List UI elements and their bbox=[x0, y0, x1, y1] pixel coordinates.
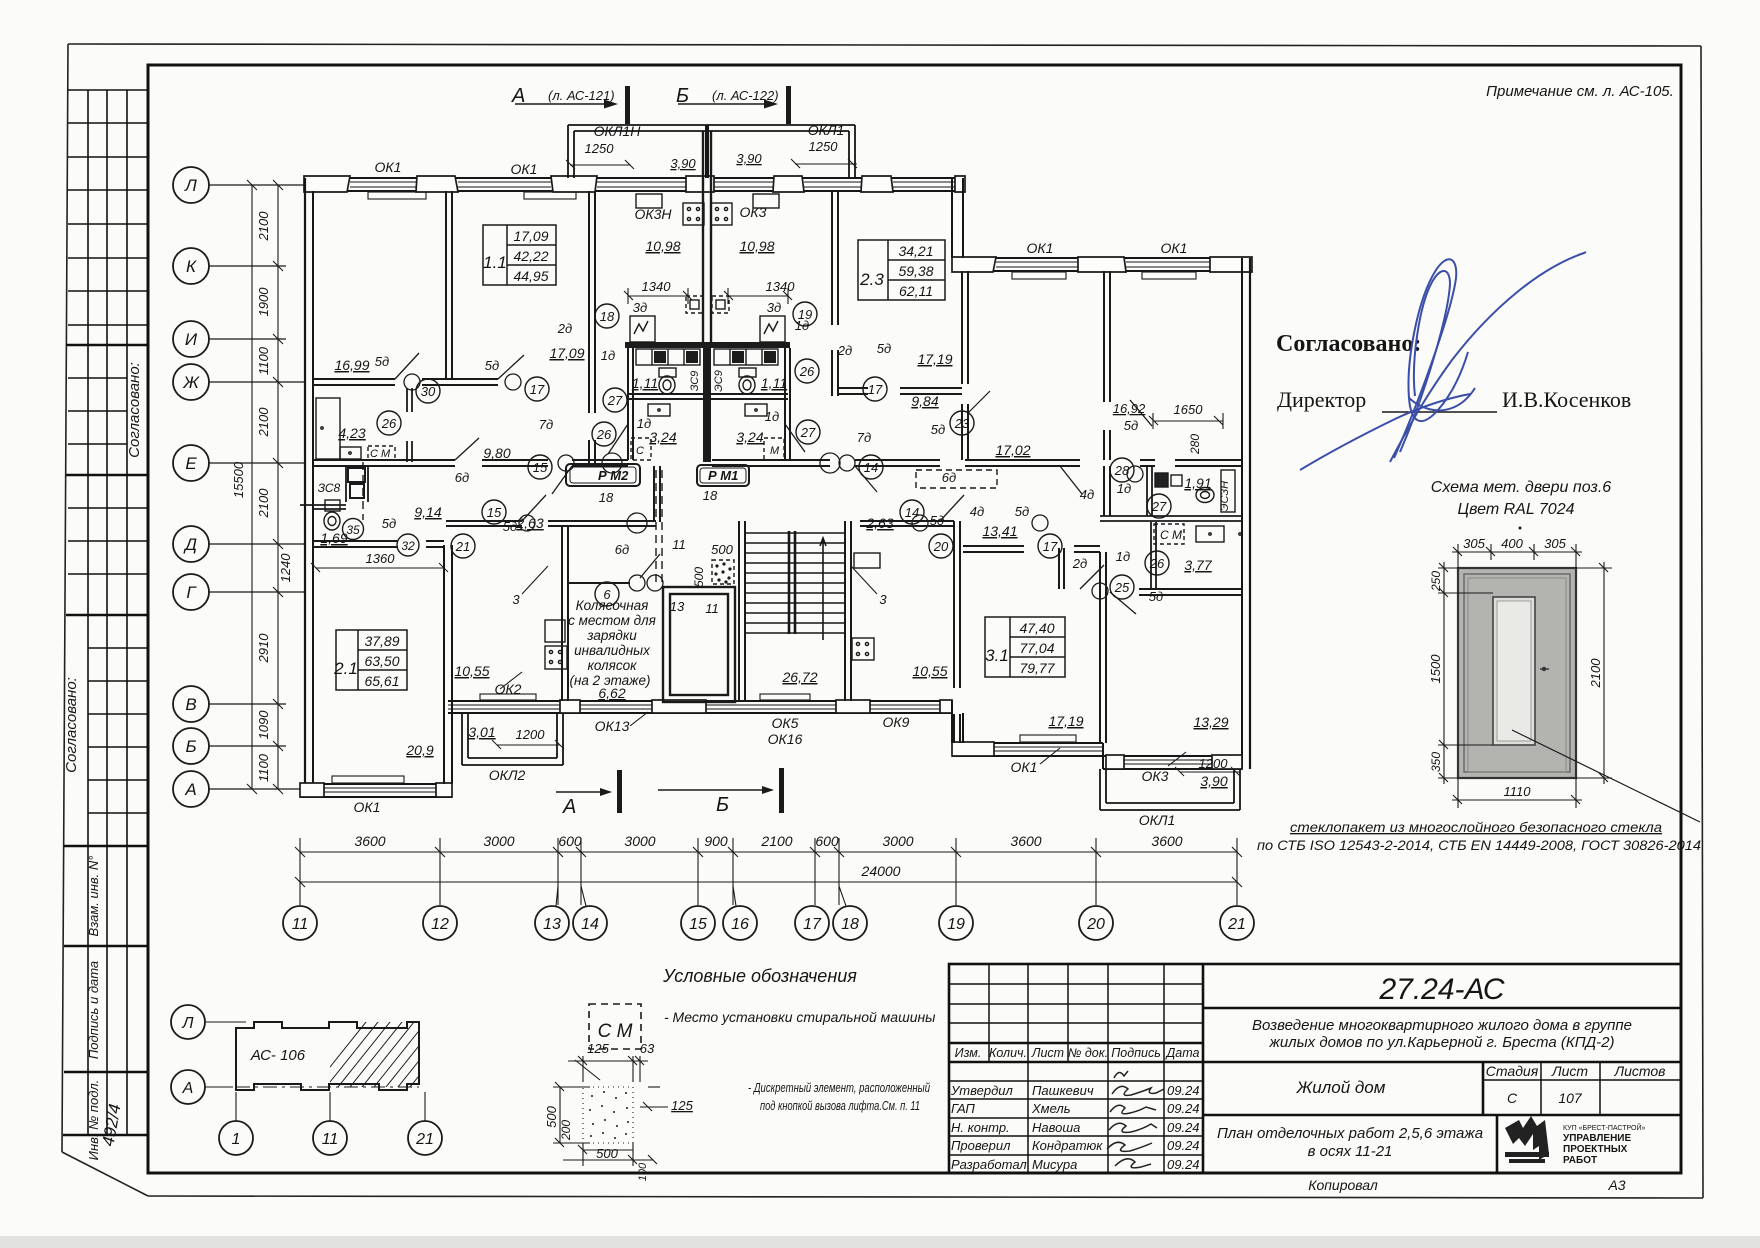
svg-text:Условные обозначения: Условные обозначения bbox=[662, 966, 857, 986]
walls below core: small partitions bbox=[628, 404, 785, 424]
svg-text:7д: 7д bbox=[539, 417, 553, 432]
svg-text:27: 27 bbox=[800, 425, 816, 440]
axis К bbox=[173, 248, 286, 284]
svg-text:А: А bbox=[184, 780, 196, 799]
svg-text:44,95: 44,95 bbox=[513, 268, 548, 284]
flat 2.3 bbox=[858, 240, 945, 300]
svg-text:инвалидных: инвалидных bbox=[574, 643, 651, 658]
СМ dashed boxes center bbox=[368, 438, 1184, 544]
svg-text:24000: 24000 bbox=[861, 863, 901, 879]
mini building bbox=[236, 1022, 419, 1090]
door dims right bbox=[1576, 562, 1612, 784]
svg-text:305: 305 bbox=[1544, 536, 1566, 551]
door dims left bbox=[1438, 562, 1493, 784]
kitchen stoves 4-burner top bbox=[683, 203, 732, 225]
svg-text:305: 305 bbox=[1463, 536, 1485, 551]
svg-text:ЗС9: ЗС9 bbox=[689, 371, 701, 392]
svg-text:6: 6 bbox=[603, 587, 611, 602]
grid axis 21 bbox=[1220, 906, 1254, 940]
svg-text:ОК3Н: ОК3Н bbox=[634, 206, 672, 222]
top band window mid lines bbox=[350, 182, 955, 187]
svg-text:Е: Е bbox=[185, 454, 197, 473]
svg-text:30: 30 bbox=[421, 384, 436, 399]
svg-text:1110: 1110 bbox=[1504, 784, 1532, 799]
svg-text:Жилой дом: Жилой дом bbox=[1296, 1078, 1386, 1097]
svg-text:ОК1: ОК1 bbox=[1161, 240, 1188, 256]
door designation labels bbox=[375, 300, 1163, 616]
axis В bbox=[173, 686, 286, 722]
left flat toilet bbox=[325, 500, 340, 511]
svg-text:11: 11 bbox=[322, 1131, 339, 1148]
svg-text:26,72: 26,72 bbox=[781, 669, 817, 685]
svg-text:Кондратюк: Кондратюк bbox=[1032, 1138, 1103, 1153]
svg-text:10,55: 10,55 bbox=[912, 663, 947, 679]
svg-text:И: И bbox=[185, 330, 198, 349]
svg-text:19: 19 bbox=[947, 916, 965, 933]
svg-text:10,98: 10,98 bbox=[645, 238, 680, 254]
svg-text:1360: 1360 bbox=[366, 551, 396, 566]
svg-text:Хмель: Хмель bbox=[1031, 1101, 1071, 1116]
stair walls bbox=[739, 521, 851, 701]
room area labels underlined bbox=[320, 238, 1228, 789]
svg-text:10,55: 10,55 bbox=[454, 663, 489, 679]
grid axis 19 bbox=[939, 906, 973, 940]
interior walls bbox=[300, 131, 1242, 743]
svg-text:ОК1: ОК1 bbox=[511, 161, 538, 177]
left wall bbox=[304, 178, 306, 797]
svg-text:5д: 5д bbox=[1149, 589, 1163, 604]
electric panels W bbox=[630, 316, 655, 342]
axis Д bbox=[173, 526, 304, 562]
lift shaft bbox=[663, 587, 735, 702]
Г axis wall right bbox=[1139, 589, 1242, 595]
party wall center x707 bbox=[703, 131, 711, 342]
svg-text:№ док.: № док. bbox=[1068, 1046, 1108, 1060]
svg-text:ОК1: ОК1 bbox=[1011, 759, 1038, 775]
svg-text:Б: Б bbox=[716, 794, 729, 816]
grid circles bottom bbox=[283, 886, 1254, 940]
axis И bbox=[173, 321, 286, 357]
svg-text:09.24: 09.24 bbox=[1167, 1120, 1200, 1135]
svg-text:2,63: 2,63 bbox=[865, 515, 893, 531]
svg-text:4д: 4д bbox=[970, 504, 984, 519]
svg-text:3,90: 3,90 bbox=[670, 156, 696, 171]
svg-text:2910: 2910 bbox=[256, 633, 271, 664]
svg-text:Навоша: Навоша bbox=[1032, 1120, 1080, 1135]
door dims bottom bbox=[1452, 778, 1582, 808]
section marks bottom bbox=[556, 768, 784, 818]
svg-text:С М: С М bbox=[598, 1021, 633, 1042]
corridor south wall bbox=[446, 521, 1100, 546]
svg-text:- Место установки стиральной м: - Место установки стиральной машины bbox=[664, 1009, 936, 1025]
dashed section line below РМ2 bbox=[363, 462, 662, 583]
svg-text:62,11: 62,11 bbox=[899, 283, 933, 299]
svg-text:1д: 1д bbox=[601, 348, 615, 363]
svg-text:5д: 5д bbox=[931, 422, 945, 437]
svg-text:1,11: 1,11 bbox=[761, 375, 787, 391]
grid axis 14 bbox=[573, 886, 607, 940]
svg-text:3,01: 3,01 bbox=[468, 724, 495, 740]
svg-text:26: 26 bbox=[596, 427, 612, 442]
sinks below bbox=[648, 404, 670, 416]
svg-text:47,40: 47,40 bbox=[1019, 620, 1054, 636]
svg-text:План отделочных работ 2,5,6 эт: План отделочных работ 2,5,6 этажа bbox=[1217, 1125, 1483, 1142]
right apartment walls bbox=[1104, 271, 1110, 516]
svg-text:Схема мет. двери поз.6: Схема мет. двери поз.6 bbox=[1431, 479, 1612, 496]
misc dims in plan bbox=[311, 563, 1240, 776]
svg-text:3600: 3600 bbox=[1151, 833, 1182, 849]
svg-text:09.24: 09.24 bbox=[1167, 1157, 1200, 1172]
svg-text:3,24: 3,24 bbox=[736, 429, 763, 445]
svg-text:600: 600 bbox=[815, 833, 839, 849]
svg-text:13,41: 13,41 bbox=[982, 523, 1017, 539]
svg-text:2100: 2100 bbox=[256, 211, 271, 242]
svg-text:10,98: 10,98 bbox=[739, 238, 774, 254]
svg-text:4,23: 4,23 bbox=[338, 425, 365, 441]
glass leader + note bbox=[1512, 730, 1700, 822]
svg-text:6д: 6д bbox=[455, 470, 469, 485]
svg-text:Р М2: Р М2 bbox=[598, 468, 629, 483]
handwritten signatures in title block bbox=[1107, 1071, 1164, 1168]
svg-text:по СТБ ISO 12543-2-2014, СТБ E: по СТБ ISO 12543-2-2014, СТБ EN 14449-20… bbox=[1257, 838, 1701, 853]
svg-text:14: 14 bbox=[905, 505, 919, 520]
axis А bbox=[173, 771, 304, 807]
svg-text:3600: 3600 bbox=[354, 833, 385, 849]
svg-text:17,02: 17,02 bbox=[995, 442, 1030, 458]
grid axis 16 bbox=[723, 886, 757, 940]
svg-text:1д: 1д bbox=[1116, 549, 1130, 564]
svg-text:Взам. инв. N°: Взам. инв. N° bbox=[86, 856, 101, 937]
svg-text:ОК5: ОК5 bbox=[772, 715, 799, 731]
svg-text:17: 17 bbox=[530, 382, 545, 397]
svg-text:16,99: 16,99 bbox=[334, 357, 369, 373]
svg-text:16: 16 bbox=[731, 916, 749, 933]
svg-text:1090: 1090 bbox=[256, 710, 271, 740]
svg-text:- Дискретный элемент, располож: - Дискретный элемент, расположенный bbox=[748, 1081, 930, 1095]
svg-text:3д: 3д bbox=[633, 300, 647, 315]
door dims top bbox=[1452, 544, 1582, 568]
top loggia bbox=[568, 125, 855, 178]
wall x952 stair right zone bbox=[954, 521, 1064, 743]
svg-text:250: 250 bbox=[1429, 571, 1443, 592]
svg-text:15: 15 bbox=[487, 505, 502, 520]
discrete element legend bbox=[553, 1056, 668, 1166]
svg-text:Утвердил: Утвердил bbox=[950, 1083, 1014, 1098]
Д axis wall left bbox=[313, 541, 444, 547]
svg-text:4д: 4д bbox=[1080, 487, 1094, 502]
wall between rooms x446 upper bbox=[446, 191, 452, 379]
svg-text:1650: 1650 bbox=[1174, 402, 1204, 417]
svg-text:1д: 1д bbox=[637, 416, 651, 431]
svg-text:РАБОТ: РАБОТ bbox=[1563, 1155, 1597, 1166]
svg-text:280: 280 bbox=[1188, 434, 1202, 455]
axis circles left bbox=[173, 167, 304, 807]
svg-text:15: 15 bbox=[689, 916, 707, 933]
drawing frame bbox=[148, 65, 1681, 1173]
svg-text:ОКЛ1Н: ОКЛ1Н bbox=[594, 123, 642, 139]
svg-text:ОК3: ОК3 bbox=[1142, 768, 1169, 784]
svg-text:Согласовано:: Согласовано: bbox=[1276, 331, 1421, 357]
window labels bbox=[354, 122, 1188, 828]
wall 2.1 right bbox=[443, 545, 445, 784]
svg-text:59,38: 59,38 bbox=[898, 263, 933, 279]
svg-text:М: М bbox=[770, 445, 780, 457]
svg-text:13: 13 bbox=[543, 916, 561, 933]
flat 3.1 bbox=[985, 617, 1065, 677]
svg-text:ОКЛ1: ОКЛ1 bbox=[808, 122, 845, 138]
svg-text:ОК1: ОК1 bbox=[375, 159, 402, 175]
svg-text:12: 12 bbox=[431, 916, 449, 933]
wall x1130 lower right bbox=[1100, 552, 1106, 743]
grid axis 18 bbox=[833, 886, 867, 940]
svg-text:17: 17 bbox=[868, 382, 883, 397]
step wall bottom mid bbox=[951, 701, 953, 743]
svg-text:Примечание см. л. АС-105.: Примечание см. л. АС-105. bbox=[1486, 83, 1674, 100]
svg-text:125: 125 bbox=[671, 1098, 693, 1113]
grid axis 13 bbox=[535, 886, 569, 940]
svg-text:1340: 1340 bbox=[642, 279, 672, 294]
svg-text:18: 18 bbox=[599, 490, 614, 505]
svg-text:1д: 1д bbox=[765, 409, 779, 424]
grid axis 11 bbox=[283, 906, 317, 940]
svg-text:17,19: 17,19 bbox=[1048, 713, 1083, 729]
bottom dimension lines bbox=[295, 838, 1242, 905]
svg-text:КУП «БРЕСТ-ПАСТРОЙ»: КУП «БРЕСТ-ПАСТРОЙ» bbox=[1563, 1123, 1645, 1132]
svg-text:1250: 1250 bbox=[585, 141, 615, 156]
svg-text:2д: 2д bbox=[1072, 556, 1087, 571]
svg-text:6д: 6д bbox=[615, 542, 629, 557]
svg-text:3000: 3000 bbox=[483, 833, 514, 849]
svg-text:19: 19 bbox=[798, 307, 812, 322]
svg-text:26: 26 bbox=[1149, 556, 1165, 571]
bathroom right top walls bbox=[1100, 516, 1242, 521]
svg-text:14: 14 bbox=[864, 460, 878, 475]
svg-text:6д: 6д bbox=[942, 470, 956, 485]
svg-text:С: С bbox=[636, 445, 644, 457]
svg-text:ГАП: ГАП bbox=[951, 1101, 975, 1116]
sink counters top kitchens bbox=[636, 194, 662, 208]
svg-text:3: 3 bbox=[879, 592, 887, 607]
svg-text:18: 18 bbox=[841, 916, 859, 933]
svg-text:5д: 5д bbox=[503, 519, 517, 534]
svg-text:С: С bbox=[1507, 1090, 1518, 1106]
svg-text:Пашкевич: Пашкевич bbox=[1032, 1083, 1094, 1098]
svg-text:15500: 15500 bbox=[231, 461, 246, 498]
svg-text:АС- 106: АС- 106 bbox=[250, 1047, 306, 1064]
svg-text:2д: 2д bbox=[557, 321, 572, 336]
grid axis 17 bbox=[795, 906, 829, 940]
svg-text:13,29: 13,29 bbox=[1193, 714, 1228, 730]
number circles bbox=[343, 302, 1172, 606]
svg-text:20: 20 bbox=[1086, 916, 1105, 933]
hatched 500 square near stairs bbox=[712, 560, 734, 584]
svg-text:Дата: Дата bbox=[1165, 1046, 1200, 1060]
exterior walls bbox=[300, 125, 1252, 810]
loggia ОКЛ2 bottom left bbox=[462, 714, 563, 765]
svg-text:9,84: 9,84 bbox=[911, 393, 938, 409]
svg-text:1240: 1240 bbox=[278, 553, 293, 583]
svg-text:ОК1: ОК1 bbox=[354, 799, 381, 815]
svg-text:18: 18 bbox=[703, 488, 718, 503]
svg-text:Стадия: Стадия bbox=[1486, 1063, 1539, 1079]
svg-text:Р М1: Р М1 bbox=[708, 468, 738, 483]
grid axis 15 bbox=[681, 906, 715, 940]
svg-text:1340: 1340 bbox=[766, 279, 796, 294]
svg-text:2100: 2100 bbox=[1588, 658, 1603, 689]
svg-text:УПРАВЛЕНИЕ: УПРАВЛЕНИЕ bbox=[1563, 1133, 1631, 1144]
svg-text:500: 500 bbox=[692, 567, 706, 587]
svg-text:11: 11 bbox=[672, 537, 686, 552]
svg-text:1100: 1100 bbox=[256, 753, 271, 782]
svg-text:3.1: 3.1 bbox=[985, 646, 1009, 665]
svg-text:ОК1: ОК1 bbox=[1027, 240, 1054, 256]
svg-text:77,04: 77,04 bbox=[1019, 640, 1054, 656]
svg-text:Возведение многоквартирного жи: Возведение многоквартирного жилого дома … bbox=[1252, 1017, 1632, 1034]
svg-text:16,92: 16,92 bbox=[1113, 401, 1146, 416]
svg-text:Лист: Лист bbox=[1031, 1046, 1064, 1060]
metal door leaf with glass bbox=[1458, 568, 1576, 778]
svg-text:21: 21 bbox=[415, 1131, 434, 1148]
svg-text:в осях 11-21: в осях 11-21 bbox=[1308, 1143, 1393, 1160]
left flat small partitions bbox=[407, 388, 412, 462]
grid axis 12 bbox=[423, 906, 457, 940]
svg-text:15: 15 bbox=[533, 460, 548, 475]
svg-text:5д: 5д bbox=[375, 354, 389, 369]
svg-text:Ж: Ж bbox=[182, 373, 200, 392]
left vertical dimension lines bbox=[247, 180, 283, 794]
svg-text:27.24-АС: 27.24-АС bbox=[1378, 973, 1504, 1006]
svg-text:3,90: 3,90 bbox=[736, 151, 762, 166]
right top bathroom bbox=[1155, 473, 1168, 487]
svg-text:1100: 1100 bbox=[256, 346, 271, 375]
svg-text:17: 17 bbox=[803, 916, 822, 933]
door leaf marks (diagonal strokes) bbox=[395, 353, 1152, 614]
wall Ж axis bbox=[313, 379, 498, 385]
svg-text:7д: 7д bbox=[857, 430, 871, 445]
top band piers (outlined) bbox=[304, 176, 965, 192]
svg-text:35: 35 bbox=[346, 523, 360, 537]
svg-text:26: 26 bbox=[799, 364, 815, 379]
svg-text:Разработал: Разработал bbox=[951, 1157, 1027, 1172]
loggia dimension 1250 left bbox=[566, 159, 857, 304]
svg-text:21: 21 bbox=[455, 539, 470, 554]
svg-text:20: 20 bbox=[933, 539, 949, 554]
svg-text:жилых домов по ул.Карьерной г: жилых домов по ул.Карьерной г. Бреста (К… bbox=[1269, 1034, 1615, 1051]
svg-text:17,09: 17,09 bbox=[513, 228, 548, 244]
СМ legend box bbox=[589, 1004, 641, 1049]
svg-text:2100: 2100 bbox=[256, 488, 271, 519]
svg-text:100: 100 bbox=[637, 1162, 649, 1181]
svg-text:25: 25 bbox=[1114, 580, 1130, 595]
svg-text:ОКЛ1: ОКЛ1 bbox=[1139, 812, 1176, 828]
area tables bbox=[333, 225, 1065, 690]
svg-text:3: 3 bbox=[512, 592, 520, 607]
svg-text:1,11: 1,11 bbox=[632, 375, 658, 391]
svg-text:37,89: 37,89 bbox=[364, 633, 399, 649]
svg-text:18: 18 bbox=[600, 309, 615, 324]
svg-text:11: 11 bbox=[705, 601, 719, 616]
svg-text:1500: 1500 bbox=[1428, 654, 1443, 684]
left counter bbox=[316, 398, 340, 459]
svg-text:ОК9: ОК9 bbox=[883, 714, 910, 730]
А axis band bottom left bbox=[300, 783, 452, 785]
svg-text:3,90: 3,90 bbox=[1200, 773, 1227, 789]
bath core walls bbox=[625, 342, 790, 348]
svg-text:Б: Б bbox=[185, 737, 196, 756]
svg-text:2.3: 2.3 bbox=[859, 270, 884, 289]
svg-text:5д: 5д bbox=[1015, 504, 1029, 519]
toilets center bbox=[659, 368, 756, 394]
svg-text:Цвет RAL 7024: Цвет RAL 7024 bbox=[1458, 501, 1575, 518]
svg-text:5д: 5д bbox=[877, 341, 891, 356]
right 3.77 room counter bbox=[1196, 526, 1224, 542]
РМ boxes bbox=[566, 464, 749, 486]
svg-text:ОК13: ОК13 bbox=[595, 718, 630, 734]
svg-text:1200: 1200 bbox=[516, 727, 546, 742]
right wall bbox=[1241, 258, 1243, 769]
svg-text:Колич.: Колич. bbox=[989, 1046, 1027, 1060]
svg-text:ЭС9: ЭС9 bbox=[713, 370, 725, 392]
svg-text:5д: 5д bbox=[930, 513, 944, 528]
svg-text:1200: 1200 bbox=[1199, 756, 1229, 771]
svg-text:9,80: 9,80 bbox=[483, 445, 510, 461]
svg-text:13: 13 bbox=[670, 599, 685, 614]
svg-text:ОК3: ОК3 bbox=[740, 204, 767, 220]
svg-text:500: 500 bbox=[596, 1146, 618, 1161]
svg-text:63: 63 bbox=[640, 1041, 655, 1056]
svg-text:107: 107 bbox=[1558, 1090, 1583, 1106]
flat 2.1 bbox=[336, 630, 407, 690]
right mid dims 1650/280 bbox=[1149, 413, 1223, 429]
title block texts bbox=[1217, 973, 1666, 1193]
Колясочная room walls bbox=[562, 526, 568, 701]
svg-text:09.24: 09.24 bbox=[1167, 1101, 1200, 1116]
svg-text:ЗС8: ЗС8 bbox=[318, 481, 341, 495]
svg-text:Согласовано:: Согласовано: bbox=[63, 677, 80, 773]
grid axis 20 bbox=[1079, 906, 1113, 940]
svg-text:3д: 3д bbox=[767, 300, 781, 315]
axis Л bbox=[173, 167, 304, 203]
svg-text:1250: 1250 bbox=[809, 139, 839, 154]
svg-text:Подпись: Подпись bbox=[1111, 1046, 1161, 1060]
svg-text:Инв. № подл.: Инв. № подл. bbox=[86, 1080, 101, 1161]
svg-text:зарядки: зарядки bbox=[586, 628, 637, 643]
top right band bbox=[952, 257, 1252, 259]
loggia ОКЛ1 bottom right bbox=[1100, 769, 1240, 810]
svg-text:3600: 3600 bbox=[1010, 833, 1041, 849]
svg-text:Подпись и дата: Подпись и дата bbox=[86, 961, 101, 1059]
svg-text:23: 23 bbox=[954, 416, 970, 431]
svg-text:600: 600 bbox=[558, 833, 582, 849]
svg-text:Лист: Лист bbox=[1551, 1063, 1588, 1079]
axis Б bbox=[173, 728, 286, 764]
svg-text:И.В.Косенков: И.В.Косенков bbox=[1502, 387, 1631, 412]
axis Г bbox=[173, 574, 304, 610]
svg-text:Копировал: Копировал bbox=[1308, 1177, 1378, 1193]
wall x592 room 1.1 bbox=[589, 191, 595, 463]
svg-text:26: 26 bbox=[381, 416, 397, 431]
svg-text:1.1: 1.1 bbox=[483, 253, 507, 272]
svg-text:2.1: 2.1 bbox=[333, 659, 358, 678]
svg-text:5д: 5д bbox=[382, 516, 396, 531]
svg-text:Н. контр.: Н. контр. bbox=[951, 1120, 1010, 1135]
axis Ж bbox=[173, 364, 304, 400]
door opening circles on walls bbox=[404, 374, 1143, 599]
svg-text:Согласовано:: Согласовано: bbox=[126, 362, 143, 458]
svg-text:Директор: Директор bbox=[1277, 387, 1366, 412]
svg-text:Проверил: Проверил bbox=[951, 1138, 1011, 1153]
svg-text:1,91: 1,91 bbox=[1184, 475, 1211, 491]
